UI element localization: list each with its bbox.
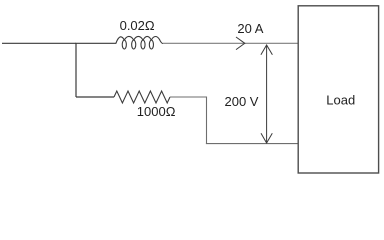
svg-text:20 A: 20 A: [237, 21, 263, 36]
wire: bottom branch to resistor: [76, 96, 114, 98]
voltage arrow (double headed): [266, 45, 268, 143]
inductor L1: [116, 36, 163, 49]
load box: [298, 6, 378, 173]
svg-text:0.02Ω: 0.02Ω: [120, 18, 155, 33]
wire: left input: [2, 42, 76, 44]
wire: resistor to corner: [170, 96, 207, 98]
resistor R1: [114, 91, 170, 103]
wire: top branch to inductor: [75, 42, 116, 44]
svg-text:200 V: 200 V: [225, 94, 259, 109]
wire: junction vertical: [75, 43, 77, 97]
svg-text:Load: Load: [326, 92, 355, 107]
wire: corner drop: [206, 97, 208, 144]
wire: inductor to load box: [163, 42, 298, 44]
svg-text:1000Ω: 1000Ω: [137, 104, 176, 119]
wire: bottom to load box: [206, 143, 298, 145]
arrowhead: current direction: [236, 37, 245, 50]
